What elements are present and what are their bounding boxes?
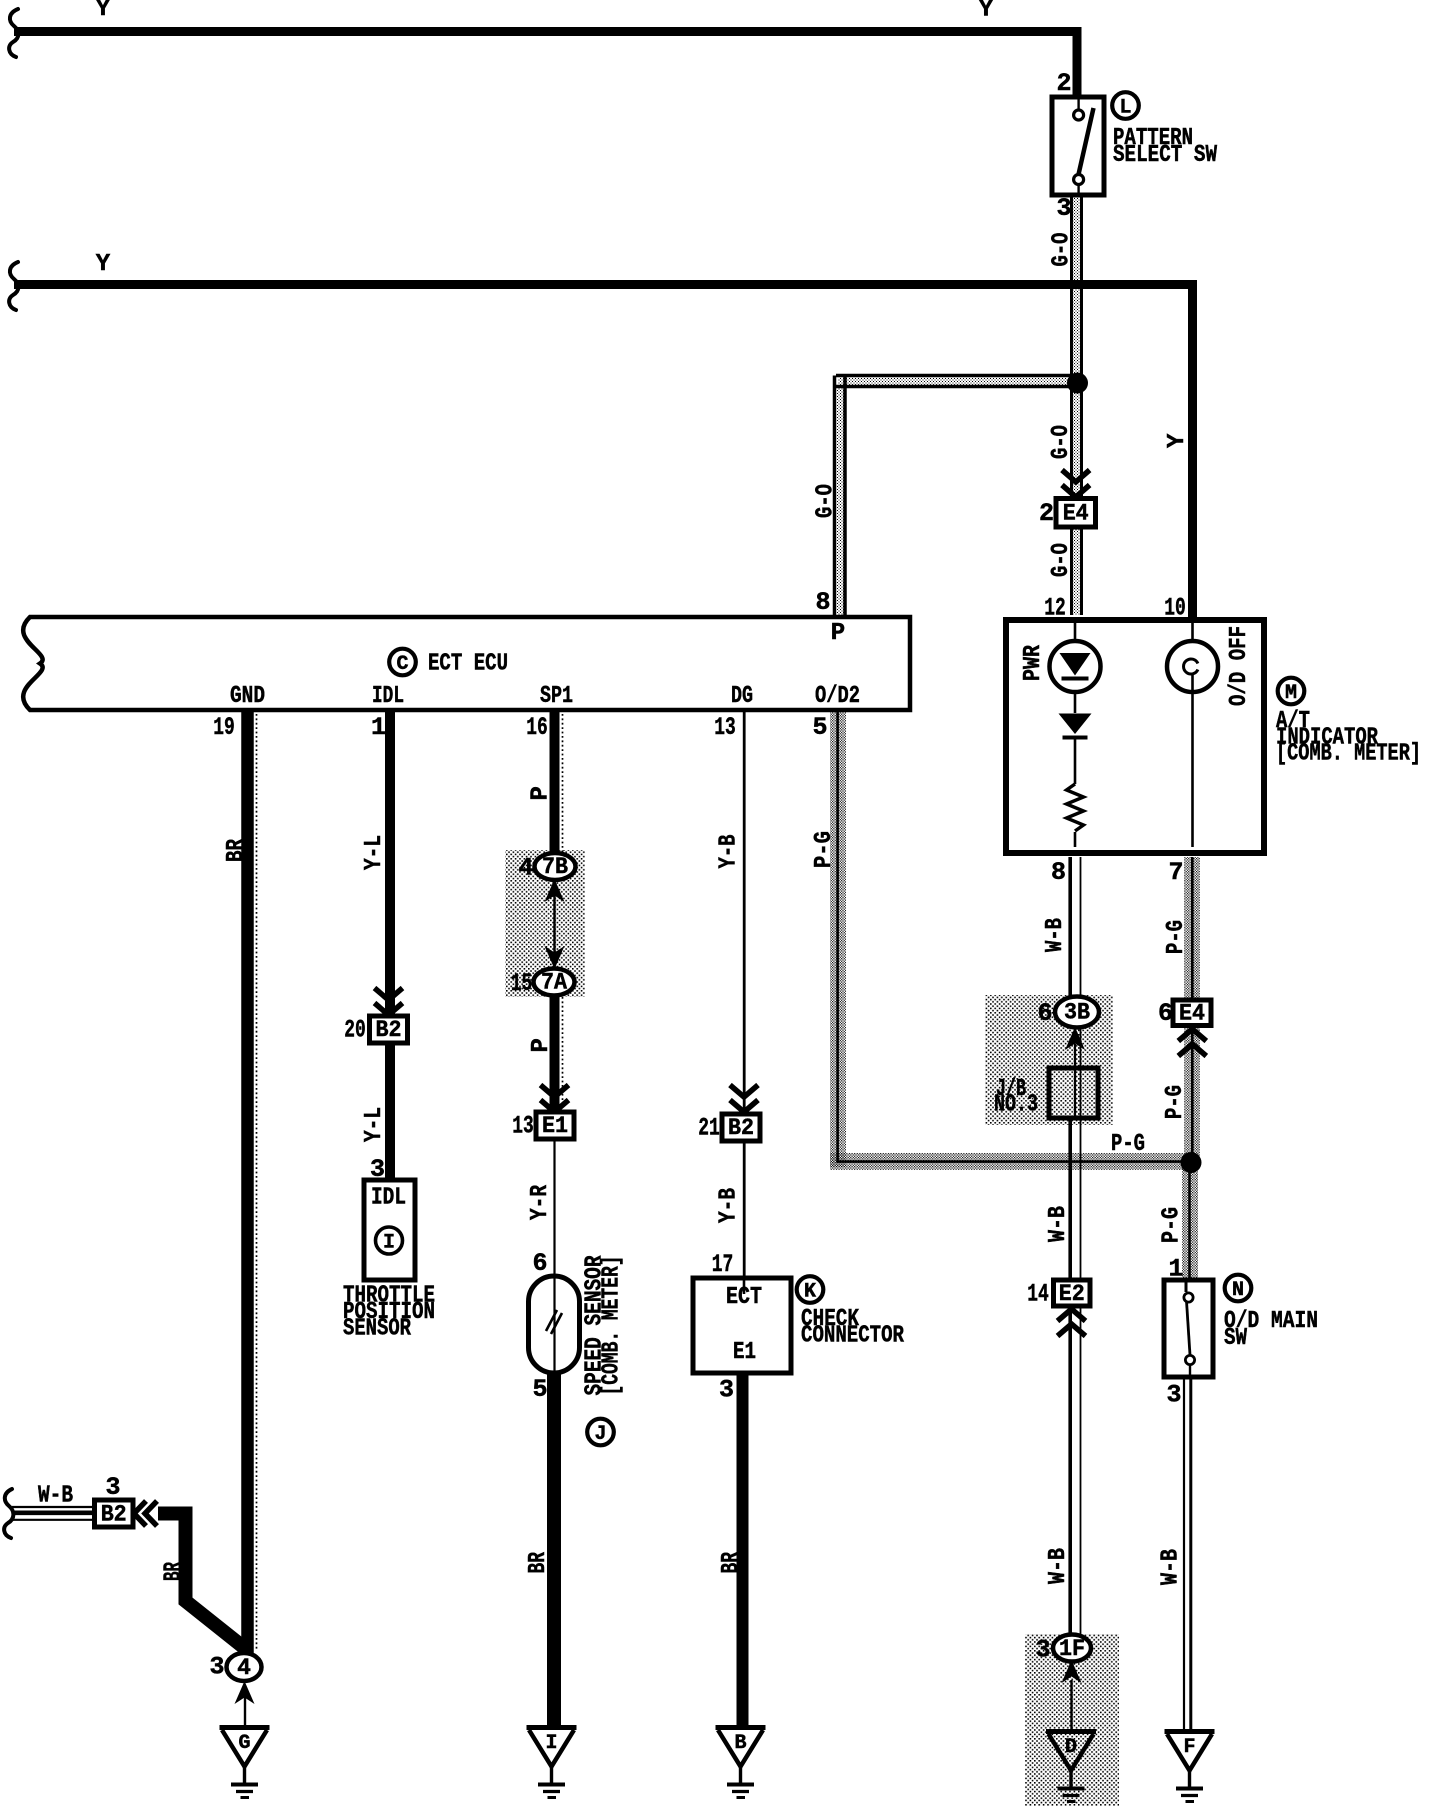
svg-text:7B: 7B <box>542 854 568 880</box>
svg-text:15: 15 <box>511 969 533 998</box>
svg-text:N: N <box>1232 1279 1244 1302</box>
svg-text:E4: E4 <box>1063 501 1089 527</box>
svg-text:P-G: P-G <box>1162 1085 1189 1119</box>
svg-text:L: L <box>1119 97 1131 120</box>
svg-text:Y: Y <box>96 251 111 278</box>
svg-text:ECT: ECT <box>726 1284 762 1311</box>
svg-text:IDL: IDL <box>371 1185 406 1212</box>
svg-text:SW: SW <box>1224 1325 1247 1352</box>
svg-text:C: C <box>396 653 408 676</box>
svg-text:BR: BR <box>525 1552 552 1574</box>
svg-text:4: 4 <box>518 854 533 883</box>
svg-text:E4: E4 <box>1179 1001 1205 1027</box>
svg-text:14: 14 <box>1027 1280 1049 1309</box>
svg-text:Y: Y <box>1164 433 1191 448</box>
svg-text:F: F <box>1183 1736 1195 1759</box>
svg-text:SELECT SW: SELECT SW <box>1113 142 1217 169</box>
svg-text:GND: GND <box>230 683 265 710</box>
svg-text:Y-L: Y-L <box>361 1107 388 1142</box>
svg-text:3: 3 <box>1035 1636 1050 1665</box>
svg-text:BR: BR <box>161 1562 188 1581</box>
svg-text:Y-B: Y-B <box>716 835 743 869</box>
svg-text:2: 2 <box>1039 499 1054 528</box>
svg-text:P: P <box>831 620 845 647</box>
svg-text:3: 3 <box>105 1473 120 1502</box>
svg-text:D: D <box>1065 1736 1077 1759</box>
svg-text:P-G: P-G <box>1159 1207 1186 1243</box>
svg-text:B: B <box>734 1732 746 1755</box>
svg-text:G-O: G-O <box>813 484 840 518</box>
svg-text:4: 4 <box>237 1655 251 1681</box>
svg-text:E2: E2 <box>1059 1281 1085 1307</box>
svg-text:K: K <box>804 1281 816 1304</box>
svg-text:M: M <box>1285 682 1297 705</box>
svg-text:Y: Y <box>979 0 994 24</box>
svg-text:6: 6 <box>1037 999 1052 1028</box>
svg-text:W-B: W-B <box>38 1483 73 1510</box>
svg-text:Y-L: Y-L <box>361 835 388 870</box>
svg-text:3: 3 <box>1166 1381 1181 1410</box>
svg-text:3: 3 <box>1056 194 1071 223</box>
svg-text:W-B: W-B <box>1158 1549 1185 1585</box>
svg-text:O/D OFF: O/D OFF <box>1226 626 1253 706</box>
svg-text:8: 8 <box>815 588 830 617</box>
svg-text:1: 1 <box>371 713 386 742</box>
svg-text:BR: BR <box>718 1552 745 1574</box>
svg-text:Y-R: Y-R <box>527 1185 554 1220</box>
svg-text:3: 3 <box>209 1653 224 1682</box>
svg-text:B2: B2 <box>728 1115 754 1141</box>
svg-text:G-O: G-O <box>1048 425 1075 459</box>
svg-text:2: 2 <box>1056 69 1071 98</box>
svg-text:IDL: IDL <box>372 683 404 710</box>
svg-text:10: 10 <box>1164 594 1186 623</box>
svg-text:6: 6 <box>532 1249 547 1278</box>
svg-text:3: 3 <box>370 1155 385 1184</box>
svg-text:I: I <box>545 1732 557 1755</box>
svg-text:B2: B2 <box>101 1502 127 1528</box>
svg-text:13: 13 <box>714 713 736 742</box>
svg-text:O/D2: O/D2 <box>815 683 860 710</box>
svg-text:SP1: SP1 <box>540 683 573 710</box>
svg-text:NO.3: NO.3 <box>994 1092 1038 1119</box>
svg-text:5: 5 <box>532 1375 547 1404</box>
svg-text:8: 8 <box>1051 858 1066 887</box>
svg-text:P: P <box>528 1038 555 1052</box>
svg-text:B2: B2 <box>376 1017 402 1043</box>
svg-text:P: P <box>528 786 555 800</box>
svg-text:Y-B: Y-B <box>716 1188 743 1223</box>
svg-text:SENSOR: SENSOR <box>343 1316 411 1343</box>
svg-text:20: 20 <box>344 1016 366 1045</box>
svg-text:W-B: W-B <box>1045 1548 1072 1584</box>
svg-text:13: 13 <box>512 1112 534 1141</box>
svg-text:ECT ECU: ECT ECU <box>428 651 508 678</box>
svg-text:PWR: PWR <box>1020 645 1047 681</box>
svg-text:G: G <box>238 1732 250 1755</box>
svg-text:21: 21 <box>698 1114 720 1143</box>
svg-text:3: 3 <box>719 1376 734 1405</box>
svg-text:1: 1 <box>1168 1255 1183 1284</box>
svg-text:E1: E1 <box>733 1339 756 1366</box>
svg-text:5: 5 <box>812 713 827 742</box>
svg-text:BR: BR <box>223 839 250 862</box>
svg-text:P-G: P-G <box>811 831 838 868</box>
svg-text:7: 7 <box>1168 858 1183 887</box>
svg-text:P-G: P-G <box>1163 920 1190 954</box>
svg-text:P-G: P-G <box>1111 1131 1145 1158</box>
svg-text:3B: 3B <box>1064 1000 1090 1026</box>
svg-text:G-O: G-O <box>1049 233 1076 267</box>
svg-text:J: J <box>594 1423 606 1446</box>
svg-text:I: I <box>383 1232 395 1255</box>
svg-text:DG: DG <box>731 683 753 710</box>
svg-text:CONNECTOR: CONNECTOR <box>801 1323 904 1350</box>
svg-text:7A: 7A <box>541 970 567 996</box>
svg-text:W-B: W-B <box>1042 918 1069 952</box>
svg-text:G-O: G-O <box>1048 543 1075 577</box>
svg-text:17: 17 <box>712 1250 734 1279</box>
svg-text:6: 6 <box>1158 999 1173 1028</box>
svg-text:W-B: W-B <box>1045 1206 1072 1242</box>
svg-text:19: 19 <box>213 713 235 742</box>
svg-text:16: 16 <box>526 713 548 742</box>
svg-text:12: 12 <box>1044 594 1066 623</box>
svg-text:[COMB. METER]: [COMB. METER] <box>1276 741 1421 768</box>
svg-text:Y: Y <box>96 0 111 23</box>
svg-text:E1: E1 <box>542 1113 568 1139</box>
svg-text:1F: 1F <box>1059 1636 1085 1662</box>
svg-text:[COMB. METER]: [COMB. METER] <box>599 1256 626 1396</box>
